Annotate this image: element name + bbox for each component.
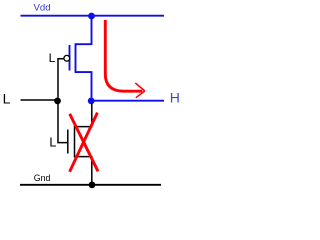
svg-text:L: L [3, 91, 11, 107]
transistor Q1 PMOS channel [75, 43, 77, 73]
svg-text:Vdd: Vdd [34, 3, 51, 14]
junction dot input node [54, 98, 61, 105]
node OUT junction dot [88, 98, 95, 105]
wire output to H [91, 100, 164, 102]
red X crossing out NMOS [70, 113, 98, 172]
junction dot on Gnd rail [89, 182, 96, 189]
wire input L [21, 99, 57, 101]
wire PMOS gate to input node [58, 59, 64, 98]
wire input node down to NMOS gate [58, 103, 67, 143]
transistor Q2 NMOS drain arm from output node [75, 103, 92, 127]
transistor Q2 NMOS gate plate [67, 130, 69, 154]
svg-text:L: L [49, 51, 56, 65]
wire Vdd rail [21, 15, 165, 17]
svg-text:L: L [49, 135, 56, 149]
svg-text:H: H [170, 89, 180, 105]
transistor Q1 PMOS drain arm [76, 72, 92, 98]
transistor Q1 PMOS gate bubble [64, 55, 70, 61]
transistor Q1 PMOS gate plate [69, 45, 71, 71]
current-flow arrow (red) from Vdd to output [105, 20, 145, 98]
wire from Vdd dot down to PMOS source [76, 16, 92, 44]
wire Gnd rail [20, 184, 161, 186]
transistor Q2 NMOS channel [74, 126, 76, 158]
junction dot on Vdd rail [88, 13, 95, 20]
svg-text:Gnd: Gnd [34, 173, 51, 183]
transistor Q2 NMOS source arm to ground [75, 157, 92, 184]
